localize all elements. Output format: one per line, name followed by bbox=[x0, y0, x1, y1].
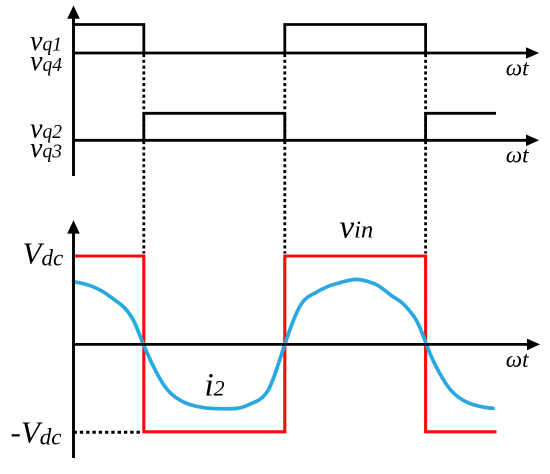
svg-text:ωt: ωt bbox=[506, 347, 529, 373]
svg-text:-Vdc: -Vdc bbox=[11, 414, 62, 449]
wire: dashed vertical at third switching instant bbox=[424, 54, 427, 254]
svg-text:i2: i2 bbox=[205, 368, 225, 404]
node: horizontal axis of vq1/vq4 plot bbox=[74, 52, 529, 55]
node: vertical axis of bottom plot bbox=[72, 228, 75, 458]
svg-text:Vdc: Vdc bbox=[23, 235, 64, 270]
wire: vq2/vq3 gate pulse waveform bbox=[144, 113, 285, 140]
wire: dashed vertical at first switching instant bbox=[142, 54, 145, 254]
wire: vin square-wave (red) bbox=[74, 256, 497, 432]
node: horizontal axis of vq2/vq3 plot bbox=[74, 139, 529, 142]
wire: i2 sinusoidal current (blue) bbox=[74, 279, 494, 408]
svg-text:ωt: ωt bbox=[506, 142, 529, 168]
node: vertical axis of gate-signal plots bbox=[72, 14, 75, 176]
wire: dotted reference line to -Vdc level bbox=[74, 431, 143, 434]
svg-text:ωt: ωt bbox=[506, 56, 529, 82]
wire: vq1/vq4 gate pulse waveform bbox=[74, 25, 144, 54]
svg-text:vin: vin bbox=[340, 210, 374, 246]
node: horizontal axis of bottom plot bbox=[74, 343, 530, 346]
wire: dashed vertical at second switching instant bbox=[283, 54, 286, 254]
